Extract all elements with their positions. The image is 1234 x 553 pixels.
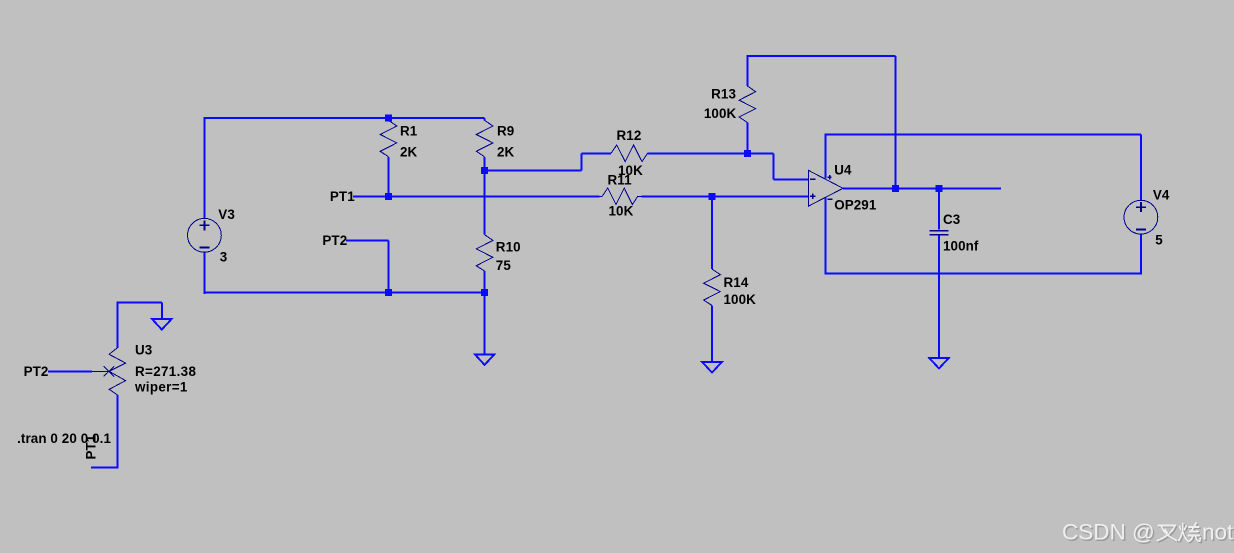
svg-text:not: not [1202,520,1234,545]
svg-text:R13: R13 [711,87,736,102]
svg-text:R=271.38: R=271.38 [135,364,196,379]
svg-text:10K: 10K [609,204,634,219]
svg-text:V3: V3 [218,207,235,222]
svg-text:75: 75 [496,258,512,273]
svg-text:V4: V4 [1153,187,1170,202]
svg-text:wiper=1: wiper=1 [134,380,188,395]
svg-text:C3: C3 [943,212,960,227]
svg-text:R1: R1 [400,124,418,139]
svg-text:PT1: PT1 [84,434,99,459]
svg-text:100K: 100K [704,106,737,121]
svg-text:100nf: 100nf [943,239,979,254]
svg-text:100K: 100K [724,292,757,307]
svg-text:2K: 2K [497,145,515,160]
svg-text:R14: R14 [724,275,749,290]
svg-text:CSDN @: CSDN @ [1062,520,1155,545]
svg-text:U3: U3 [135,343,152,358]
svg-text:R11: R11 [608,172,633,187]
svg-text:U4: U4 [834,162,852,177]
svg-text:5: 5 [1155,233,1163,248]
svg-text:3: 3 [220,250,228,265]
svg-text:PT1: PT1 [330,189,355,204]
svg-text:R9: R9 [497,124,514,139]
svg-text:R12: R12 [617,128,642,143]
svg-text:2K: 2K [400,144,418,159]
svg-text:OP291: OP291 [834,198,877,213]
svg-text:R10: R10 [496,239,521,254]
svg-text:PT2: PT2 [322,233,347,248]
svg-text:PT2: PT2 [24,364,49,379]
